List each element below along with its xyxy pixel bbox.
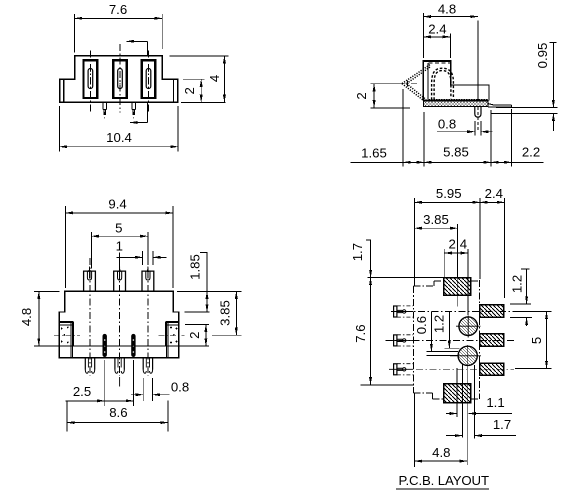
leader verticals below hole 2: [457, 345, 474, 465]
top view body outline: [59, 291, 179, 357]
housing inner wall line: [427, 63, 429, 99]
dimension 9.4: [66, 206, 173, 288]
tab 2 (top view): [114, 267, 126, 292]
svg-text:0.6: 0.6: [414, 316, 429, 334]
slot 3: [142, 60, 156, 98]
svg-text:10.4: 10.4: [106, 130, 132, 145]
row centerline 2: [386, 339, 514, 341]
svg-text:2.2: 2.2: [522, 145, 540, 160]
dimension 3.85 (pcb): [414, 224, 457, 278]
centerline slot 1: [89, 51, 91, 113]
svg-text:4.8: 4.8: [432, 445, 450, 460]
solder base plate (hatched): [423, 101, 488, 107]
dimension 3.85: [212, 291, 242, 335]
contact strip on plate: [429, 99, 488, 101]
slot 1: [84, 60, 98, 98]
centerline slot 3: [148, 51, 150, 113]
footprint outline (phantom) top-left corner: [414, 280, 480, 399]
beam center mark +: [388, 81, 418, 87]
dimension 4.8 (pcb bottom): [415, 393, 468, 467]
svg-text:2.4: 2.4: [485, 186, 503, 201]
housing top strip dashed line: [429, 62, 451, 64]
pin symbol row 3: [389, 364, 413, 375]
dimension 1.2 (pcb right): [510, 269, 532, 326]
tab 3 (top view): [142, 267, 154, 292]
svg-text:3.85: 3.85: [218, 300, 233, 326]
svg-text:7.6: 7.6: [353, 324, 368, 342]
bottom dimension chain 1.65 / 5.85 / 2.2: [350, 89, 543, 167]
svg-text:0.95: 0.95: [535, 43, 550, 69]
svg-text:1.7: 1.7: [350, 243, 365, 261]
contact 3: [146, 69, 151, 89]
right shield wing: [166, 322, 179, 358]
dimension 2 (front view right): [181, 79, 226, 102]
dimension 4 (front view right): [170, 56, 229, 103]
dimension 1.85: [177, 253, 242, 312]
contact pad 3 (hatched): [480, 363, 504, 375]
slot 2: [113, 60, 127, 98]
svg-text:0.8: 0.8: [171, 380, 189, 395]
dimension 4.8 (side view): [423, 13, 478, 58]
svg-text:1: 1: [116, 239, 123, 254]
solder pin 2 (top view fork): [115, 358, 124, 387]
dimension 0.8 (pin width): [437, 121, 493, 136]
dimension 5.95: [414, 198, 480, 286]
svg-text:4.8: 4.8: [19, 308, 34, 326]
connector body outline (front view): [60, 56, 178, 103]
svg-text:5: 5: [115, 220, 122, 235]
dimension 2.4 (side view): [423, 34, 450, 59]
right flange lip line: [173, 79, 175, 102]
svg-text:1.2: 1.2: [431, 315, 446, 333]
dimension 2.4 (top row): [480, 198, 504, 298]
svg-text:1.85: 1.85: [187, 254, 202, 280]
contact 1: [88, 69, 93, 89]
latch hole 1 (hatched circle): [456, 316, 481, 338]
latch pin right (top view, bold): [128, 334, 140, 357]
svg-text:4: 4: [460, 237, 467, 252]
svg-text:2: 2: [187, 332, 202, 339]
svg-text:5: 5: [529, 337, 544, 344]
dimension 0.95 (side view right): [492, 43, 558, 132]
svg-text:5.95: 5.95: [436, 186, 462, 201]
svg-text:2: 2: [354, 92, 369, 99]
svg-text:7.6: 7.6: [109, 2, 127, 17]
svg-text:4: 4: [207, 75, 222, 82]
dimension 7.6 (pcb left): [360, 278, 413, 385]
svg-text:4.8: 4.8: [438, 2, 456, 17]
dimension 5 (pcb right): [513, 312, 552, 369]
svg-text:9.4: 9.4: [108, 197, 126, 212]
svg-text:3.85: 3.85: [423, 212, 449, 227]
dimension 1.7 (pcb left top): [366, 240, 444, 278]
svg-text:8.6: 8.6: [109, 405, 127, 420]
solder pin 1 (top view fork): [85, 358, 94, 374]
svg-text:2.5: 2.5: [73, 384, 91, 399]
svg-text:2: 2: [182, 87, 197, 94]
dimension 2 (side view left): [371, 84, 410, 108]
leader arrow bottom: [130, 103, 147, 123]
svg-text:2: 2: [448, 237, 455, 252]
pin centerline / 4.8 extension: [477, 21, 479, 132]
solder tail extension: [488, 104, 512, 107]
left shield wing: [59, 322, 73, 358]
dimension 1.7 (pcb bottom): [446, 435, 516, 437]
front edge line: [34, 345, 209, 347]
left wing centerline: [54, 334, 80, 336]
latch pin left (front view): [103, 102, 107, 115]
solder pin 3 (top view fork): [143, 358, 152, 374]
left flange lip line: [63, 79, 65, 102]
side view housing block: [423, 61, 489, 101]
row centerline 3: [389, 368, 514, 370]
dimension 10.4: [60, 106, 178, 151]
dimension 1: [116, 251, 166, 265]
dimension 1.1: [446, 413, 512, 415]
svg-text:1.1: 1.1: [486, 395, 504, 410]
tab2 solid extension line: [119, 252, 121, 280]
centerline tab2: [119, 258, 121, 376]
tab 1 (top view): [84, 267, 96, 292]
contact pad 1 (hatched): [480, 305, 504, 318]
pin symbol row 2: [386, 335, 414, 346]
svg-text:5.85: 5.85: [443, 145, 469, 160]
spring contact (dashed n-shape): [432, 68, 454, 100]
contact 2: [118, 69, 123, 89]
solder pin (side view): [475, 106, 481, 117]
dimension 4.8 (top view left): [34, 291, 60, 346]
svg-text:2.4: 2.4: [428, 22, 446, 37]
svg-text:P.C.B. LAYOUT: P.C.B. LAYOUT: [399, 473, 490, 488]
centerline tab1: [89, 258, 91, 376]
dimension 7.6: [75, 14, 163, 53]
latch pin right (front view): [132, 102, 136, 115]
pin symbol row 1: [391, 306, 413, 317]
contact pad 2 (hatched): [480, 334, 504, 347]
top pad centerline: [456, 267, 458, 307]
latch pin left (top view, bold): [99, 334, 111, 357]
dimension 0.6 (pcb middle): [427, 312, 459, 356]
leader arrow top (mating direction): [127, 41, 148, 56]
dimension 1.2 (pcb middle): [444, 312, 459, 349]
svg-text:1.65: 1.65: [361, 145, 387, 160]
bottom shield pad (hatched): [444, 384, 471, 403]
housing top edge bold: [423, 60, 452, 62]
row centerline 1: [391, 311, 514, 313]
dimension 2.4 (second): [444, 249, 468, 315]
right wing centerline: [159, 334, 185, 336]
title underline: [396, 488, 489, 490]
top shield pad (hatched): [444, 278, 471, 296]
centerline slot 2: [119, 44, 121, 113]
contact beam triangle (stippled): [402, 64, 431, 102]
svg-text:1.7: 1.7: [493, 417, 511, 432]
dimension 8.6: [67, 401, 168, 432]
dimension 2 (top view right): [185, 325, 209, 346]
dimension 5: [91, 232, 148, 269]
dimension 0.8 (pin width, top view): [131, 378, 170, 401]
dimension 2.5: [65, 360, 133, 406]
latch pin centerlines: [105, 112, 134, 119]
svg-text:1.2: 1.2: [509, 275, 524, 293]
svg-text:0.8: 0.8: [438, 116, 456, 131]
latch hole 2 (hatched circle): [450, 346, 481, 365]
centerline tab3: [147, 258, 149, 376]
